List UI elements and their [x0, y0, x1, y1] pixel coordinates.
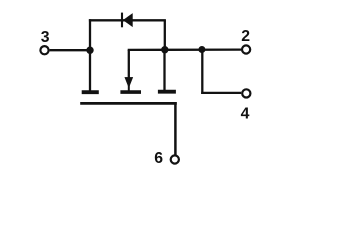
junction C dot [198, 46, 205, 53]
wire channel corner down to pin 6 [174, 102, 177, 155]
junction B dot [161, 46, 168, 53]
pin 6 terminal circle [171, 155, 179, 163]
wire rail left to substrate corner [128, 49, 165, 51]
diode D1 anode triangle [124, 14, 133, 26]
svg-text:2: 2 [241, 28, 250, 45]
channel line (source-drain structure) [80, 102, 177, 105]
svg-text:4: 4 [241, 105, 250, 122]
wire corner to pin 4 [201, 92, 241, 94]
wire junction A down to gate 1 bar [89, 50, 91, 91]
wire junction A up to top rail [89, 19, 91, 50]
diode D1 cathode bar [121, 13, 123, 28]
wire pin 3 to junction A [50, 49, 90, 51]
pin 3 terminal circle [40, 46, 48, 54]
wire top rail right corner down to junction B [164, 20, 166, 49]
substrate arrowhead [125, 77, 133, 87]
svg-text:3: 3 [41, 29, 50, 46]
pin 4 terminal circle [242, 89, 250, 97]
gate 2 electrode bar [158, 90, 176, 94]
svg-text:6: 6 [154, 150, 163, 167]
junction A dot [86, 47, 93, 54]
top rail wire (gate protection loop) [89, 19, 166, 21]
substrate (bulk) electrode bar [120, 90, 141, 94]
substrate arrow stub to bar [128, 85, 130, 91]
pin 2 terminal circle [242, 45, 250, 53]
rail wire junction B to pin 2 [165, 48, 241, 51]
wire junction B down to gate 2 bar [163, 50, 165, 90]
wire junction C down to pin 4 corner [201, 50, 203, 95]
gate 1 electrode bar [82, 90, 99, 94]
wire substrate corner down [128, 50, 130, 79]
